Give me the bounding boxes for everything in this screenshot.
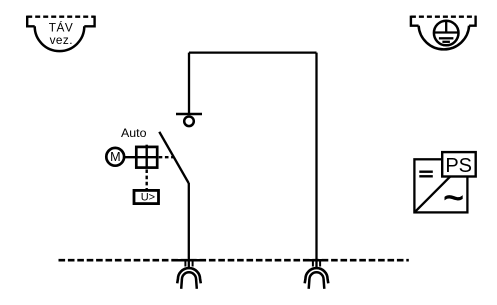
earth vertical stroke (445, 21, 447, 32)
left bracket corner (411, 16, 419, 26)
disconnector Q1 (159, 114, 202, 183)
outer tulip (177, 268, 201, 283)
DC symbol bar 1 (419, 170, 433, 172)
wire: right vertical drop to fork (315, 53, 317, 268)
PS label box (442, 152, 476, 176)
pin left prong (312, 261, 314, 267)
fork cross bar (305, 259, 328, 262)
box (136, 147, 157, 168)
fork cross bar (178, 259, 201, 262)
remote-control terminal symbol TÁV vez. (27, 16, 94, 52)
boundary dashed line (59, 259, 409, 262)
hinge circle (184, 117, 194, 127)
svg-text:~: ~ (443, 179, 463, 218)
svg-text:Auto: Auto (121, 126, 147, 140)
diagonal divider (414, 159, 467, 212)
left bracket corner (27, 16, 35, 27)
pin right prong (192, 261, 194, 267)
inner tulip (309, 272, 325, 289)
motor circle (106, 148, 124, 166)
dashed top line of TÁV symbol (27, 16, 94, 18)
right drawout fork connector (305, 260, 329, 289)
overvoltage relay U> (134, 190, 159, 203)
motor drive M (106, 148, 124, 166)
link line from M through box (124, 156, 157, 158)
dashed mechanical link to blade (159, 156, 174, 158)
svg-text:vez.: vez. (50, 33, 73, 47)
inner tulip (181, 272, 197, 289)
earth bar 1 (435, 31, 458, 33)
power supply converter (414, 152, 475, 217)
svg-text:PS: PS (445, 155, 472, 177)
bowl semicircle (419, 26, 470, 50)
earth bar 2 (439, 37, 454, 39)
main converter box (414, 159, 467, 212)
bowl semicircle (35, 26, 85, 51)
switch blade (159, 132, 188, 183)
outer tulip (305, 268, 329, 283)
fixed contact T-bar (176, 113, 202, 116)
drive mechanism box (window cross) (124, 145, 157, 168)
wire: left vertical drop to disconnector (188, 53, 190, 114)
svg-text:U>: U> (141, 192, 155, 204)
cross vertical (145, 145, 147, 168)
earth circle (434, 21, 459, 46)
dashed link down to U> relay (145, 169, 147, 189)
dashed top line of earth symbol (411, 16, 476, 18)
wire: below disconnector (188, 183, 190, 267)
earth bar 3 (442, 41, 450, 43)
pin left prong (184, 261, 186, 267)
svg-text:M: M (110, 150, 121, 164)
right bracket corner (84, 16, 94, 27)
left drawout fork connector (177, 260, 201, 289)
wire: top horizontal bus (189, 51, 317, 53)
DC symbol bar 2 (419, 175, 433, 177)
right bracket corner (469, 16, 476, 26)
protective earth terminal symbol (411, 16, 476, 50)
pin right prong (319, 261, 321, 267)
